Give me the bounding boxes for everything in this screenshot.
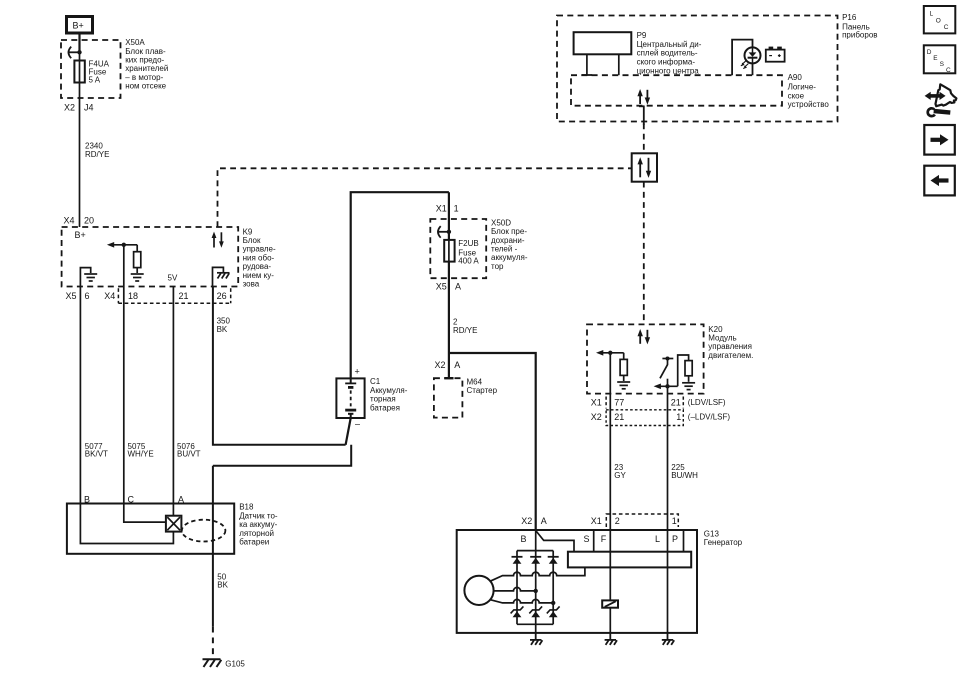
battery C1 box: [336, 378, 364, 418]
svg-text:18: 18: [128, 291, 138, 301]
node junction dot pin18: [122, 243, 126, 247]
generator connector X1 dashed bracket: [606, 514, 678, 527]
svg-text:ляторной: ляторной: [239, 529, 274, 538]
svg-text:1: 1: [672, 516, 677, 526]
svg-text:1: 1: [676, 412, 681, 422]
svg-text:C: C: [944, 24, 949, 31]
B18 internal wire from pin C: [124, 504, 166, 523]
K9 pin 18 internal wire: [123, 245, 125, 287]
telltale indicator lamp loop: [732, 40, 752, 76]
svg-text:J4: J4: [84, 102, 94, 112]
svg-text:S: S: [584, 534, 590, 544]
svg-text:A: A: [455, 281, 461, 291]
generator ground F: [605, 633, 617, 645]
fuse block X50D dashed box: [430, 219, 486, 278]
svg-text:G105: G105: [225, 660, 245, 669]
K20 pin row 2 labels X2 21 1 -LDV/LSF: [591, 412, 731, 422]
dashed ellipse clamp of sensor: [182, 520, 226, 542]
label X50D block name: [491, 218, 528, 271]
svg-text:21: 21: [671, 398, 681, 408]
svg-text:6: 6: [85, 291, 90, 301]
label X50A fuse block name: [125, 38, 168, 91]
svg-text:X4: X4: [64, 215, 75, 225]
generator F lead through regulator to field: [609, 530, 611, 633]
K20 left input arrow: [600, 352, 623, 354]
wire branch to generator B: [449, 353, 536, 530]
svg-text:X5: X5: [66, 291, 77, 301]
generator ground B: [530, 633, 542, 645]
serial data dashed bus from K9 to instrument connector: [218, 168, 632, 227]
ground G105 chassis symbol: [203, 659, 222, 667]
ground symbol under resistor 1: [617, 382, 630, 389]
icon LOC box: [924, 6, 956, 33]
svg-text:Блок пре-: Блок пре-: [491, 227, 527, 236]
generator L lead through regulator to ground: [667, 530, 669, 633]
svg-text:рудова-: рудова-: [243, 262, 272, 271]
svg-text:C: C: [946, 67, 951, 74]
svg-text:21: 21: [614, 412, 624, 422]
svg-text:ния обо-: ния обо-: [243, 253, 275, 262]
wire label 350 BK: [217, 317, 231, 334]
svg-text:F: F: [601, 534, 607, 544]
svg-text:5 A: 5 A: [89, 76, 101, 85]
svg-text:торная: торная: [370, 395, 396, 404]
wire 50 BK from negative rail through B18 to ground: [212, 466, 214, 627]
svg-text:26: 26: [217, 291, 227, 301]
label P16 name: [842, 13, 877, 40]
wire labels 5077 5075 5076: [85, 442, 201, 459]
svg-text:D: D: [927, 49, 932, 56]
generator B pin branch to regulator: [536, 531, 574, 552]
wire through fuse F4UA: [79, 52, 81, 227]
indicator LED circle: [745, 47, 761, 63]
svg-text:управле-: управле-: [243, 245, 276, 254]
svg-text:2: 2: [615, 516, 620, 526]
svg-text:аккумуля-: аккумуля-: [491, 253, 528, 262]
label A90 name: [788, 73, 830, 109]
label B18 sensor name: [239, 503, 278, 547]
K20 pin row 1 labels X1 77 21 LDV/LSF: [591, 398, 726, 408]
connector label X1 1 above X50D: [436, 203, 459, 213]
battery current sensor B18 box: [67, 504, 234, 554]
svg-text:(–LDV/LSF): (–LDV/LSF): [688, 412, 731, 421]
K20 lower output arrow: [658, 385, 678, 387]
svg-text:BU/WH: BU/WH: [671, 471, 698, 480]
svg-text:батареи: батареи: [239, 538, 269, 547]
wire label 2340 RD/YE: [85, 142, 109, 160]
pin row 2 dotted outline: [606, 410, 683, 426]
svg-text:–: –: [355, 419, 360, 429]
K20 pull resistor 2 feed: [678, 355, 689, 386]
in-line connector box with arrows: [632, 153, 657, 181]
dashed bus connector box to K20: [643, 182, 645, 325]
svg-text:A90: A90: [788, 73, 803, 82]
svg-text:E: E: [933, 55, 938, 62]
logic device A90 dashed box: [571, 75, 782, 106]
icon body panel with arrow and wrench: [925, 84, 957, 116]
node junction dot on B+ feed: [77, 50, 81, 54]
svg-text:K20: K20: [708, 325, 723, 334]
engine control module K20 dashed box: [587, 324, 704, 393]
chassis ground symbol in K9 pin 26: [217, 273, 230, 279]
svg-text:L: L: [655, 534, 660, 544]
svg-text:X1: X1: [591, 398, 602, 408]
svg-text:2: 2: [453, 317, 458, 326]
rectifier column 1: [516, 551, 518, 625]
svg-text:G13: G13: [704, 529, 720, 538]
svg-text:S: S: [940, 61, 945, 68]
svg-text:X50D: X50D: [491, 218, 511, 227]
starter terminal tick: [444, 377, 453, 379]
wire label 50 BK: [217, 572, 228, 589]
svg-text:зова: зова: [243, 280, 260, 289]
svg-text:сплей водитель-: сплей водитель-: [637, 49, 698, 58]
wire labels 23 GY and 225 BU/WH: [614, 463, 698, 480]
fuse F4UA: [74, 61, 84, 83]
K9 output arrow left: [111, 244, 137, 246]
bus from instrument panel to connector box: [643, 124, 645, 154]
svg-text:20: 20: [84, 215, 94, 225]
svg-text:5V: 5V: [168, 273, 178, 282]
svg-text:(LDV/LSF): (LDV/LSF): [688, 398, 726, 407]
A90 serial arrows: [637, 89, 650, 105]
svg-text:WH/YE: WH/YE: [128, 450, 154, 459]
fuse block X50A dashed box: [61, 40, 121, 98]
rectifier column 3: [552, 551, 554, 625]
connector terminal clip symbol: [69, 47, 72, 59]
wire battery feed to X50D and starter: [448, 192, 450, 378]
svg-text:B18: B18: [239, 503, 254, 512]
svg-text:X2: X2: [435, 360, 446, 370]
connector label X2 A above starter: [435, 360, 461, 370]
field winding symbol: [602, 600, 618, 607]
stator winding line 3: [490, 599, 553, 603]
svg-text:+: +: [355, 367, 360, 377]
stator winding line 2: [494, 587, 536, 591]
svg-text:A: A: [541, 516, 547, 526]
P9 legs: [586, 54, 588, 75]
node junction dot in X50D: [447, 230, 451, 234]
connector X4 dashed outline: [118, 288, 230, 303]
wire label 2 RD/YE: [453, 317, 477, 335]
svg-text:управления: управления: [708, 342, 752, 351]
connector label X2 A above generator: [521, 516, 546, 526]
wire K20 pin77/21 to generator F (23 GY): [609, 353, 611, 530]
dashed wire to ground G105: [212, 627, 214, 658]
LED emission arrows: [741, 61, 749, 69]
stator winding line 1 to regulator: [490, 567, 585, 581]
svg-text:L: L: [930, 11, 934, 18]
svg-text:устройство: устройство: [788, 100, 830, 109]
svg-text:Центральный ди-: Центральный ди-: [637, 40, 702, 49]
wire B+ to fuse block X50A: [78, 34, 80, 53]
svg-text:– в мотор-: – в мотор-: [125, 73, 163, 82]
svg-text:X4: X4: [104, 291, 115, 301]
svg-text:телей -: телей -: [491, 245, 518, 254]
rectifier top rail and B column: [517, 550, 553, 552]
svg-text:21: 21: [179, 291, 189, 301]
connector row labels X5 6 X4 18 21 26: [66, 291, 227, 301]
wire K20 pin21/1 to generator L (225 BU/WH): [667, 386, 669, 530]
ground symbol in K9 pin 6: [84, 274, 97, 281]
svg-text:RD/YE: RD/YE: [85, 150, 109, 159]
svg-text:F2UB: F2UB: [458, 239, 478, 248]
pin labels B C A above B18: [84, 494, 184, 504]
svg-text:дохрани-: дохрани-: [491, 236, 525, 245]
battery minus wire: [346, 418, 351, 445]
battery telltale icon: [766, 47, 785, 62]
svg-text:тор: тор: [491, 262, 504, 271]
K20 switch fixed contact bar: [662, 358, 673, 360]
connector label X2 J4: [64, 102, 94, 112]
label P9 display name: [637, 31, 702, 76]
generator P lead: [683, 530, 685, 552]
svg-text:77: 77: [614, 398, 624, 408]
svg-text:P: P: [672, 534, 678, 544]
svg-text:P16: P16: [842, 13, 857, 22]
wire K9 pin18 to B18 pin C (5075 WH/YE): [123, 287, 125, 504]
svg-text:ка аккуму-: ка аккуму-: [239, 520, 277, 529]
svg-text:BU/VT: BU/VT: [177, 450, 201, 459]
svg-text:X5: X5: [436, 281, 447, 291]
wire K9 pin26 350 BK down to battery negative rail: [213, 287, 346, 445]
svg-text:ких предо-: ких предо-: [125, 56, 164, 65]
K20 switch lower stub: [667, 379, 669, 387]
current sensor element X box: [166, 516, 182, 532]
K9 serial-data arrows: [212, 232, 224, 248]
svg-text:Датчик то-: Датчик то-: [239, 511, 278, 520]
svg-text:X1: X1: [591, 516, 602, 526]
svg-text:Логиче-: Логиче-: [788, 82, 817, 91]
display P9 box: [574, 32, 632, 54]
svg-text:Блок: Блок: [243, 236, 261, 245]
K20 pull resistor 1: [623, 353, 625, 360]
wire K9 pin21 to B18 pin A (5076 BU/VT): [172, 287, 174, 504]
label C1 battery name: [370, 377, 408, 412]
svg-text:C1: C1: [370, 377, 381, 386]
fuse F2UB: [444, 240, 454, 262]
svg-text:Стартер: Стартер: [467, 386, 498, 395]
B18 internal wire from pin A: [172, 504, 174, 516]
svg-text:Аккумуля-: Аккумуля-: [370, 386, 408, 395]
svg-text:B+: B+: [75, 230, 86, 240]
resistor in K9: [136, 245, 138, 252]
svg-text:двигателем.: двигателем.: [708, 351, 753, 360]
svg-text:X2: X2: [64, 102, 75, 112]
voltage regulator box: [568, 552, 691, 568]
svg-text:X50A: X50A: [125, 38, 145, 47]
power node B+: [67, 17, 93, 34]
svg-text:B+: B+: [73, 20, 84, 30]
top diodes: [512, 557, 559, 564]
svg-text:1: 1: [454, 203, 459, 213]
svg-text:400 A: 400 A: [458, 257, 479, 266]
svg-text:нием ку-: нием ку-: [243, 271, 275, 280]
label K20 name: [708, 325, 753, 360]
svg-text:K9: K9: [243, 227, 253, 236]
battery plus wire up to junction rail: [351, 192, 449, 378]
icon back arrow box: [924, 166, 955, 196]
svg-text:Модуль: Модуль: [708, 334, 736, 343]
starter M64 dashed box: [434, 378, 463, 417]
svg-text:X2: X2: [591, 412, 602, 422]
negative rail lower horizontal: [213, 445, 351, 466]
svg-text:X1: X1: [436, 203, 447, 213]
ground symbol under resistor 2: [682, 383, 695, 390]
svg-text:BK/VT: BK/VT: [85, 450, 108, 459]
rectifier bottom rail: [517, 623, 553, 625]
connector label X4 20: [64, 215, 95, 225]
K9 pin 6 internal wire to ground: [80, 268, 90, 287]
label G13 name: [704, 529, 743, 547]
connector label X5 A below X50D: [436, 281, 461, 291]
body control module K9 dashed box: [62, 227, 239, 287]
svg-text:X2: X2: [521, 516, 532, 526]
bottom zener diodes: [511, 606, 560, 617]
instrument panel P16 dashed box: [557, 16, 838, 122]
K9 pin 26 internal wire to chassis ground: [213, 267, 224, 286]
battery cell symbols: [345, 378, 356, 418]
svg-text:GY: GY: [614, 471, 626, 480]
K20 switch blade: [660, 364, 668, 378]
icon next arrow box: [924, 125, 955, 155]
svg-text:батарея: батарея: [370, 403, 400, 412]
rotor circle: [464, 576, 493, 605]
wire K9 pin6 to B18 pin B (5077 BK/VT): [79, 287, 81, 504]
connector terminal clip symbol X50D: [438, 226, 441, 238]
svg-text:приборов: приборов: [842, 31, 877, 40]
svg-text:BK: BK: [217, 580, 228, 589]
svg-text:M64: M64: [467, 377, 483, 386]
B18 internal wire from pin B: [80, 504, 173, 544]
node junction dot pin1 branch: [665, 384, 669, 388]
generator S lead: [593, 530, 595, 552]
generator ground L: [662, 633, 674, 645]
label K9 module name: [243, 227, 276, 288]
svg-text:BK: BK: [217, 325, 228, 334]
svg-text:ского информа-: ского информа-: [637, 58, 696, 67]
svg-text:Блок плав-: Блок плав-: [125, 47, 166, 56]
svg-text:A: A: [454, 360, 460, 370]
pin row 1 dashed separators: [606, 397, 683, 409]
svg-text:Генератор: Генератор: [704, 538, 743, 547]
svg-text:хранителей: хранителей: [125, 64, 168, 73]
connector labels X1 2 1 above generator: [591, 516, 677, 526]
node junction dot pin77: [608, 351, 612, 355]
svg-text:RD/YE: RD/YE: [453, 326, 477, 335]
icon DESC box: [924, 45, 956, 74]
svg-text:B: B: [521, 534, 527, 544]
label M64 starter name: [467, 377, 498, 395]
generator G13 box: [457, 530, 697, 633]
K20 serial arrows: [638, 329, 651, 344]
generator pin labels B S F L P: [521, 534, 679, 544]
svg-text:ном отсеке: ном отсеке: [125, 82, 166, 91]
ground symbol under K9 resistor: [131, 274, 144, 281]
svg-text:P9: P9: [637, 31, 647, 40]
svg-text:O: O: [936, 18, 941, 25]
svg-text:ционного центра: ционного центра: [637, 67, 700, 76]
